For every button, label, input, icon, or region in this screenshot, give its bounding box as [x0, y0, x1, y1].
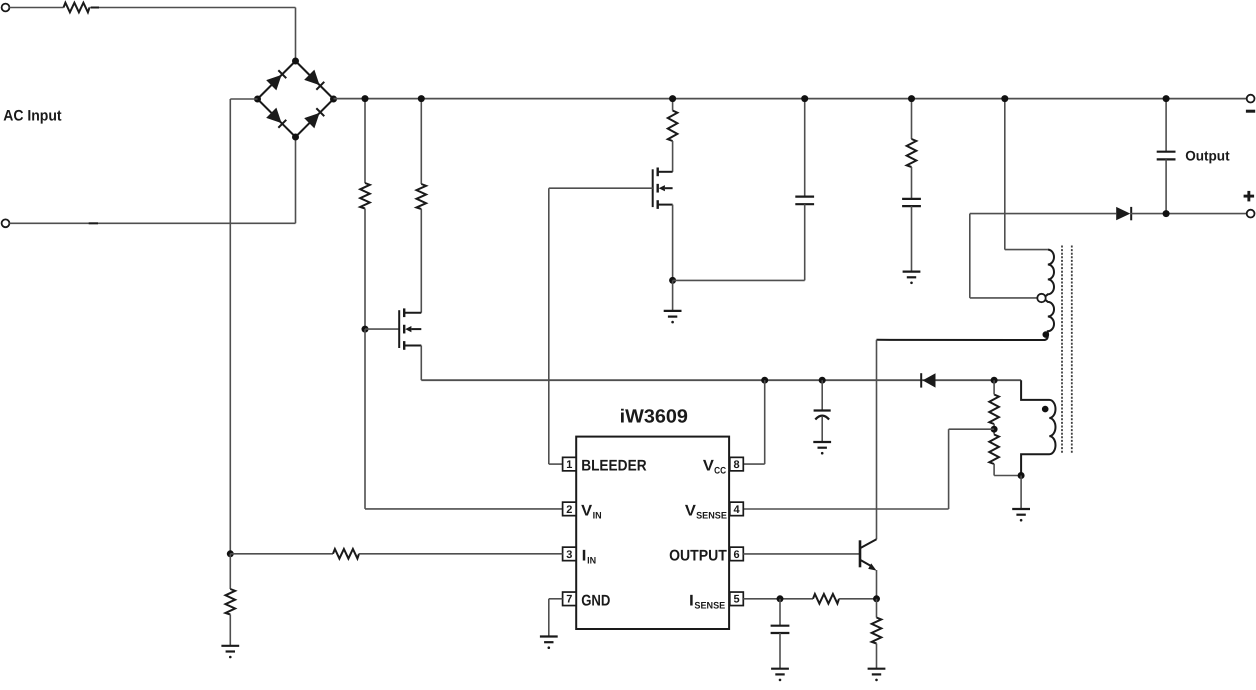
bridge rectifier frame	[258, 61, 334, 137]
wire	[548, 599, 550, 637]
pin label OUTPUT	[669, 547, 727, 564]
wire to pin 1	[549, 463, 563, 465]
wire	[359, 553, 563, 555]
bridge diode D2 (top-right)	[304, 70, 325, 91]
node isense 2	[873, 595, 880, 602]
wire Q2 gate	[549, 187, 653, 189]
output minus sign	[1246, 110, 1255, 113]
bridge diode D4 (bottom-right)	[304, 107, 325, 128]
svg-text:Output: Output	[1185, 148, 1230, 164]
wire	[876, 644, 878, 669]
node Q2 source	[669, 277, 676, 284]
wire	[911, 167, 913, 199]
wire	[9, 7, 63, 9]
node bus 5	[908, 95, 915, 102]
wire	[229, 99, 231, 554]
wire	[672, 205, 674, 281]
Output label	[1185, 148, 1230, 164]
wire	[295, 8, 297, 62]
wire	[230, 553, 333, 555]
resistor R6	[989, 395, 999, 425]
output capacitor C3	[1157, 152, 1176, 160]
node bus 1	[362, 95, 369, 102]
wire	[1165, 99, 1167, 152]
wire	[821, 380, 823, 410]
node bus 6	[1001, 95, 1008, 102]
HV bus wire	[334, 98, 1248, 100]
svg-text:V: V	[703, 457, 715, 474]
svg-text:5: 5	[733, 594, 739, 606]
node bridge left	[254, 96, 261, 103]
pin label VCC	[703, 457, 726, 476]
wire	[229, 554, 231, 589]
wire	[90, 7, 296, 9]
ground	[664, 311, 682, 324]
wire	[229, 615, 231, 646]
resistor R4	[668, 111, 678, 142]
node aux bottom	[1018, 472, 1025, 479]
pin label ISENSE	[689, 592, 725, 611]
pin 4 square	[730, 502, 744, 516]
wire	[673, 279, 805, 281]
wire	[839, 598, 877, 600]
output terminal plus	[1247, 210, 1255, 218]
wire	[420, 346, 422, 381]
wire	[779, 599, 781, 626]
svg-text:AC Input: AC Input	[3, 107, 61, 124]
wire	[364, 329, 366, 509]
wire	[876, 599, 878, 618]
ground	[540, 637, 558, 650]
svg-text:CC: CC	[714, 465, 726, 476]
wire to BJT base	[743, 553, 860, 555]
primary tap circle	[1037, 294, 1045, 302]
wire to pin 8	[743, 463, 765, 465]
resistor R2	[360, 183, 370, 209]
pin 6 square	[730, 547, 744, 561]
svg-text:OUTPUT: OUTPUT	[669, 547, 727, 564]
node bridge bottom	[292, 134, 299, 141]
AC input terminal (top, line 1)	[2, 4, 10, 12]
wire	[743, 598, 813, 600]
svg-text:V: V	[581, 502, 593, 519]
wire	[364, 99, 366, 183]
wire	[672, 99, 674, 111]
wire collector line	[876, 340, 878, 539]
pin 7 square	[563, 592, 577, 606]
bridge diode D1 (left-top)	[266, 69, 287, 90]
resistor R3	[417, 184, 427, 209]
capacitor C1	[795, 197, 814, 205]
capacitor C4 (polarized)	[814, 411, 831, 420]
ground	[868, 669, 886, 682]
svg-text:SENSE: SENSE	[694, 600, 725, 611]
wire	[911, 206, 913, 272]
bridge diode D3 (left-bottom)	[266, 108, 287, 129]
aux polarity dot	[1042, 406, 1049, 413]
resistor R9	[226, 589, 236, 615]
svg-text:iW3609: iW3609	[620, 406, 688, 427]
transformer core	[1062, 246, 1072, 454]
wire	[993, 380, 995, 434]
pin 8 square	[730, 457, 744, 471]
wire	[9, 222, 295, 224]
svg-text:GND: GND	[581, 592, 610, 609]
node bridge top	[292, 58, 299, 65]
ground	[221, 646, 239, 659]
MOSFET Q1	[399, 308, 421, 349]
transformer auxiliary winding	[1021, 380, 1055, 475]
pin 5 square	[730, 592, 744, 606]
transistor Q3 (NPN)	[860, 539, 877, 570]
VCC rail wire	[421, 379, 1021, 381]
wire	[295, 137, 297, 223]
IC title iW3609	[620, 406, 688, 427]
node bridge right	[330, 96, 337, 103]
svg-text:I: I	[582, 547, 587, 564]
svg-text:IN: IN	[587, 555, 596, 566]
AC Input label	[3, 107, 61, 124]
wire	[821, 417, 823, 442]
svg-text:6: 6	[733, 549, 739, 561]
node vsense tap	[991, 426, 998, 433]
capacitor C2	[902, 199, 921, 206]
resistor R5	[907, 139, 917, 167]
svg-text:2: 2	[566, 504, 572, 516]
node aux top	[991, 377, 998, 384]
svg-text:IN: IN	[593, 510, 602, 521]
svg-text:SENSE: SENSE	[696, 510, 727, 521]
wire	[779, 633, 781, 669]
pin 2 square	[563, 502, 577, 516]
primary polarity dot	[1043, 331, 1050, 338]
wire plus rail	[970, 213, 1116, 215]
ground	[771, 669, 789, 682]
ground	[1012, 509, 1030, 522]
wire	[804, 204, 806, 280]
wire	[970, 297, 1038, 299]
wire	[911, 99, 913, 139]
resistor R10	[813, 594, 839, 604]
transformer primary winding	[877, 250, 1055, 340]
output diode D6	[1116, 207, 1131, 220]
pin label IIN	[582, 547, 597, 566]
wire	[364, 209, 366, 330]
node vcc 1	[761, 377, 768, 384]
IC U1 box	[576, 437, 729, 629]
wire	[420, 209, 422, 313]
node iin junction	[227, 550, 234, 557]
node bus 7	[1163, 95, 1170, 102]
svg-text:V: V	[685, 502, 697, 519]
wire	[549, 598, 563, 600]
wire	[365, 328, 399, 330]
aux diode D5	[921, 373, 935, 387]
wire	[230, 98, 257, 100]
wire	[994, 475, 1021, 477]
resistor R7	[989, 435, 999, 465]
svg-text:BLEEDER: BLEEDER	[581, 457, 646, 474]
input resistor/fusible R1	[64, 3, 90, 13]
capacitor C5	[771, 626, 790, 633]
node bus 4	[801, 95, 808, 102]
node M1 gate junction	[362, 326, 369, 333]
node output cap bottom	[1163, 210, 1170, 217]
resistor R8	[333, 549, 359, 559]
wire	[876, 570, 878, 599]
svg-text:I: I	[689, 592, 694, 609]
output terminal minus	[1247, 95, 1255, 103]
svg-text:7: 7	[566, 594, 572, 606]
MOSFET Q2	[653, 168, 673, 209]
wire	[993, 464, 995, 476]
wire	[672, 141, 674, 172]
pin 1 square	[563, 457, 577, 471]
AC input terminal (bottom, line 2)	[2, 219, 10, 227]
svg-text:4: 4	[733, 504, 740, 516]
node bus 2	[418, 95, 425, 102]
wire to pin 2	[365, 508, 563, 510]
ground	[903, 272, 921, 285]
pin 3 square	[563, 547, 577, 561]
pin label BLEEDER	[581, 457, 646, 474]
wire vsense route	[743, 429, 994, 509]
wire	[969, 214, 971, 298]
wire	[1130, 213, 1247, 215]
wire	[672, 280, 674, 311]
pin label VIN	[581, 502, 602, 521]
node isense 1	[777, 595, 784, 602]
wire	[1005, 249, 1048, 251]
wire	[804, 99, 806, 197]
wire	[1165, 159, 1167, 213]
pin label GND	[581, 592, 610, 609]
wire bleeder vertical	[548, 188, 550, 464]
wire	[420, 99, 422, 184]
wire	[1020, 476, 1022, 510]
svg-text:3: 3	[566, 549, 572, 561]
resistor R11	[872, 618, 882, 644]
node vcc 2	[819, 377, 826, 384]
wire	[1004, 99, 1006, 250]
output plus sign	[1244, 191, 1255, 202]
ground	[813, 442, 831, 455]
svg-text:1: 1	[566, 459, 572, 471]
svg-text:8: 8	[733, 459, 739, 471]
wire	[764, 380, 766, 464]
node bus 3	[669, 95, 676, 102]
pin label VSENSE	[685, 502, 727, 521]
